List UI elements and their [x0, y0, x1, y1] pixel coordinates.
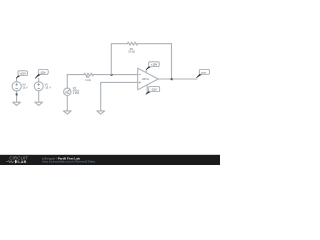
- node flag +15V on V4: [16, 71, 27, 78]
- svg-text:10 kΩ: 10 kΩ: [128, 49, 135, 53]
- wire op-amp output: [158, 78, 197, 80]
- op-amp U1 LM741: [138, 68, 159, 90]
- svg-text:15 V: 15 V: [22, 86, 28, 90]
- wire feedback top right: [137, 43, 171, 45]
- wire feedback top left: [111, 43, 127, 45]
- node flag out: [197, 69, 210, 78]
- ground (V5): [35, 102, 43, 105]
- svg-text:+15V: +15V: [19, 72, 26, 76]
- svg-text:1 kΩ: 1 kΩ: [85, 78, 90, 82]
- voltage source V5: [34, 78, 43, 102]
- svg-text:-15V: -15V: [151, 88, 157, 92]
- svg-text:-15V: -15V: [40, 70, 46, 74]
- footer watermark bar: [0, 155, 220, 165]
- node flag +15V on op-amp V+ pin: [146, 62, 159, 70]
- svg-text:1 kHz: 1 kHz: [73, 91, 80, 95]
- svg-text:http://circuitlab.com/c7bbrwn2: http://circuitlab.com/c7bbrwn27kkm: [42, 160, 95, 164]
- node junction B: [171, 78, 173, 80]
- resistor R1: [84, 73, 93, 76]
- node flag -15V on op-amp V- pin: [146, 87, 160, 95]
- wire V6 to R1: [67, 74, 84, 76]
- svg-text:+15V: +15V: [151, 63, 158, 67]
- terminal dot V4: [16, 94, 18, 96]
- svg-text:LAB: LAB: [18, 160, 26, 164]
- voltage source V4: [12, 78, 21, 102]
- value label V4 15V: [22, 82, 28, 89]
- wire non-inverting input to ground: [101, 82, 138, 111]
- svg-text:LM741: LM741: [142, 79, 150, 81]
- wire R1 to op-amp inverting input: [93, 74, 137, 76]
- svg-text:out: out: [201, 71, 206, 75]
- value label R2 10k: [128, 47, 135, 54]
- ground (V6): [63, 111, 71, 114]
- value label R1 1k: [85, 75, 90, 82]
- resistor R2: [127, 42, 137, 45]
- node flag -15V on V5: [35, 70, 48, 79]
- wire feedback left vertical: [110, 44, 112, 75]
- value label V6 500m 1kHz: [73, 86, 80, 95]
- value label V5 -15V: [45, 82, 51, 89]
- pin stub V+: [145, 70, 147, 73]
- ground (V4): [13, 102, 21, 105]
- wire feedback right vertical: [171, 44, 173, 79]
- svg-text:-15 V: -15 V: [45, 86, 51, 90]
- ground (op-amp +): [97, 111, 105, 114]
- node junction A: [111, 74, 113, 76]
- pin stub V-: [146, 85, 148, 93]
- AC source V6: [64, 75, 71, 111]
